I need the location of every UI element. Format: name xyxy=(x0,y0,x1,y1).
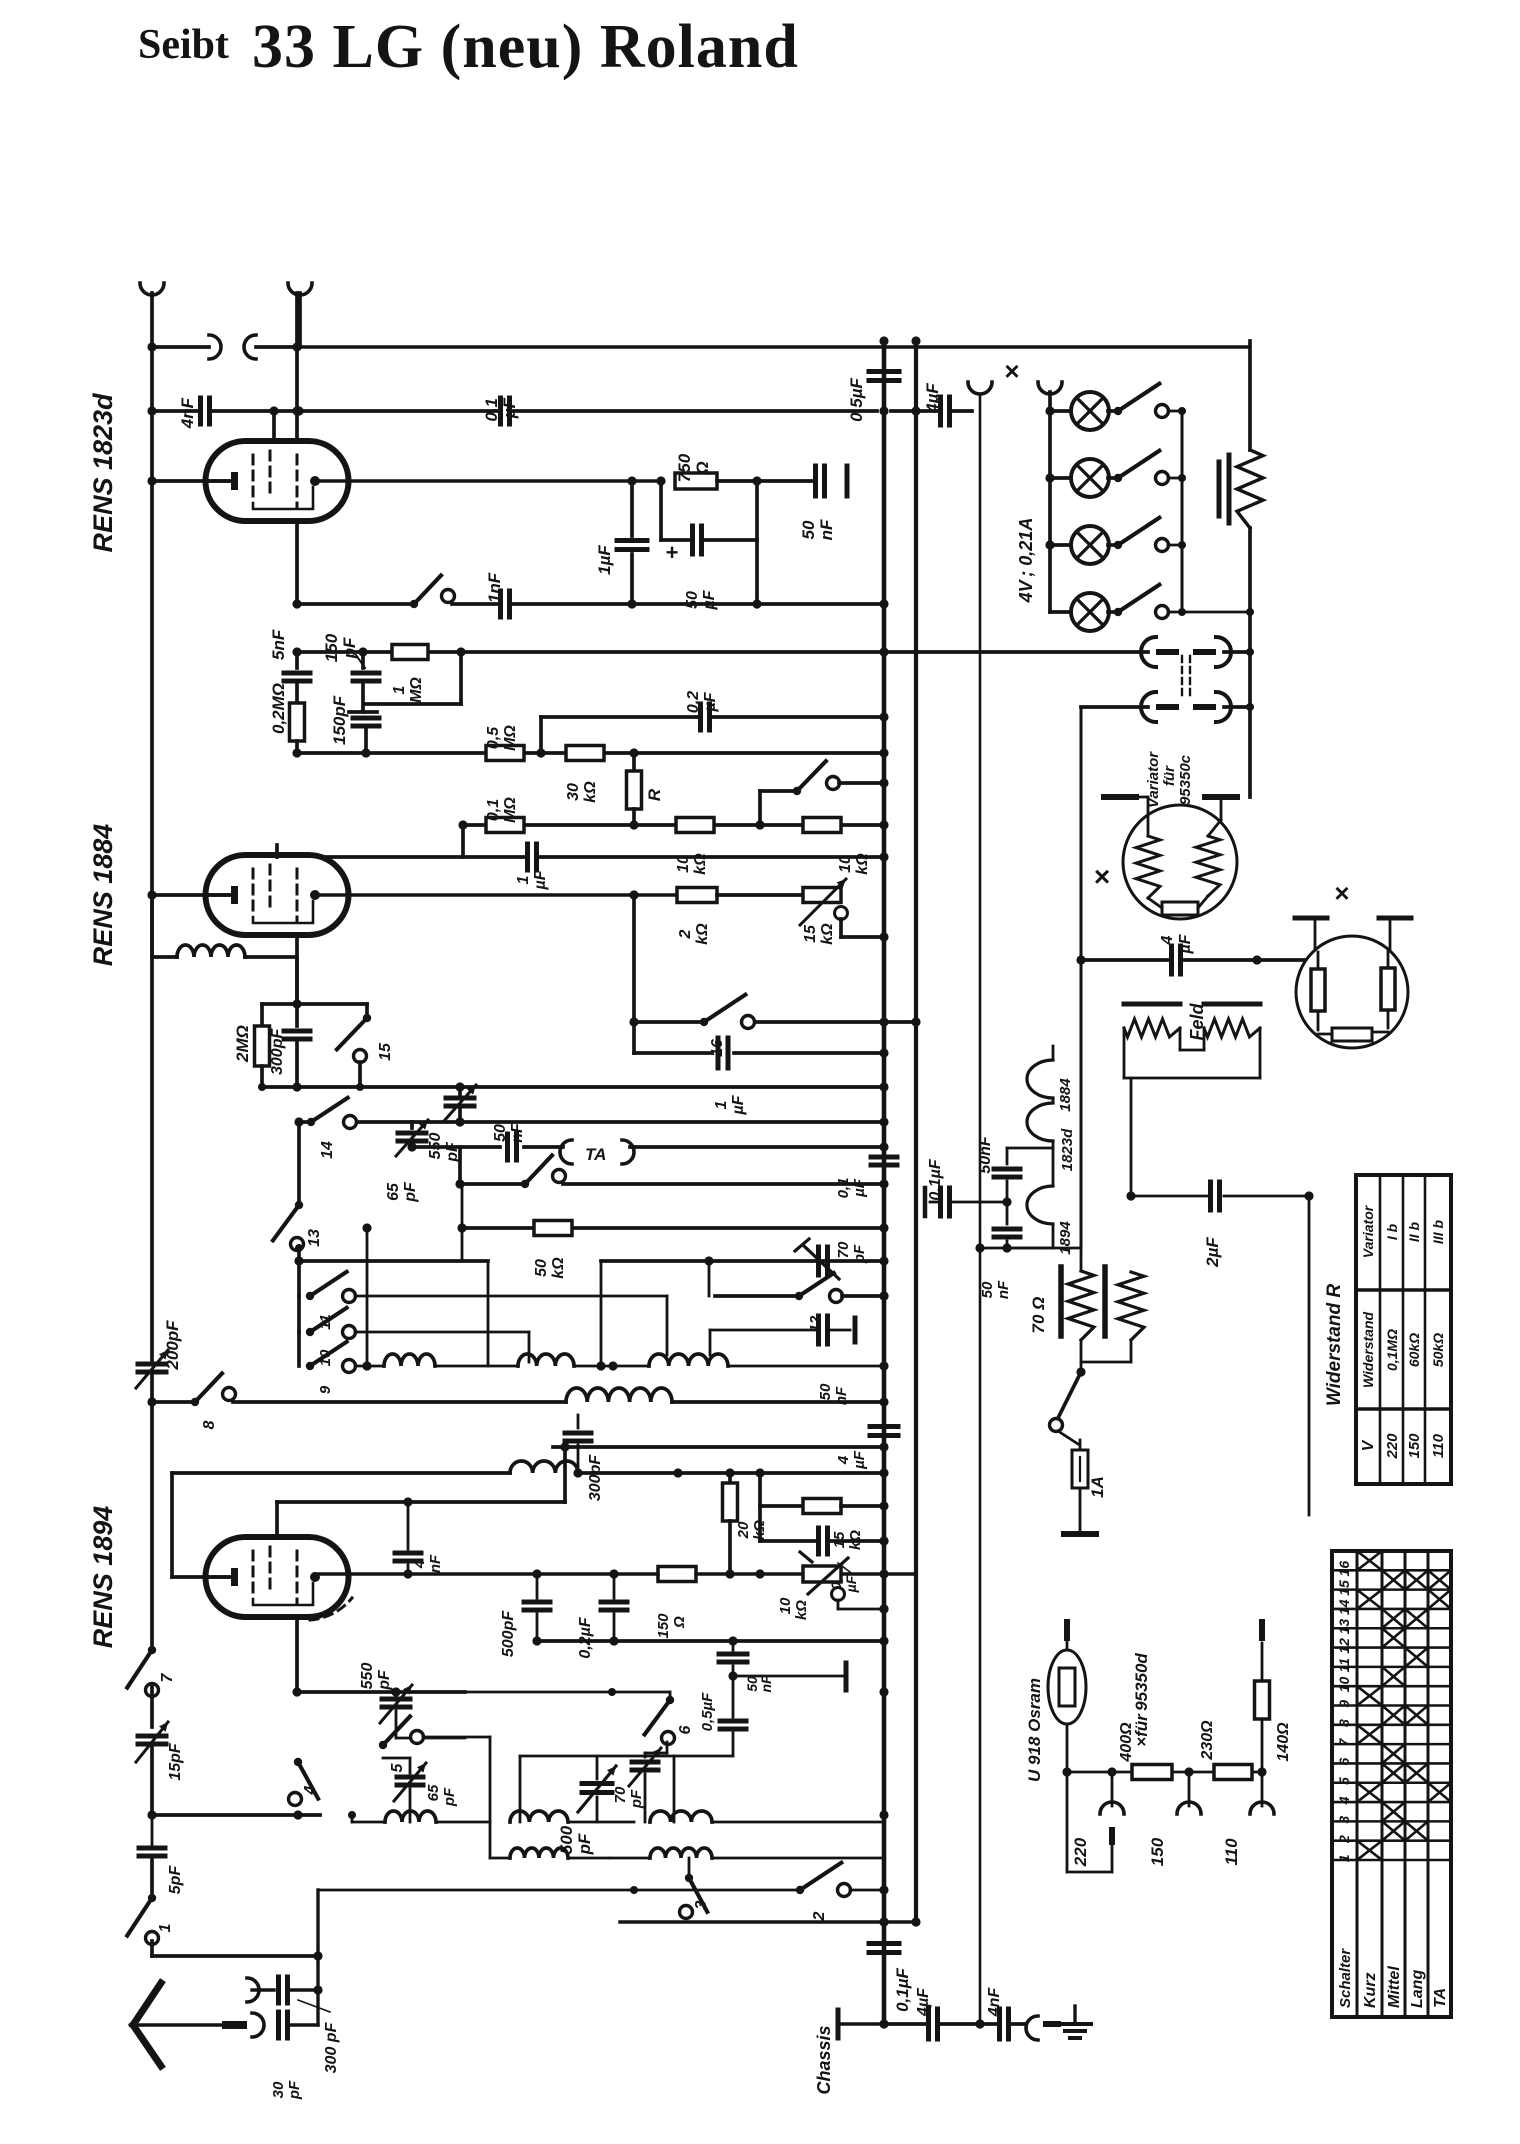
capacitor 4uF chassis xyxy=(915,1987,938,2039)
winding 1823d xyxy=(1027,1098,1076,1171)
capacitor 70pF var xyxy=(790,1239,868,1279)
svg-text:pF: pF xyxy=(851,1244,868,1264)
winding bottom xyxy=(1007,1224,1053,1248)
svg-text:5: 5 xyxy=(1336,1777,1352,1785)
svg-text:0,1: 0,1 xyxy=(482,398,501,422)
wire y411 row xyxy=(152,409,972,413)
label Feld xyxy=(1187,1003,1207,1041)
svg-text:140Ω: 140Ω xyxy=(1275,1722,1292,1762)
svg-text:13: 13 xyxy=(1336,1619,1352,1635)
svg-text:MΩ: MΩ xyxy=(502,725,519,751)
svg-text:pF: pF xyxy=(376,1669,393,1691)
wire y825 xyxy=(458,820,884,829)
winding 1884 xyxy=(1027,1060,1074,1112)
svg-text:0,1: 0,1 xyxy=(835,1178,852,1199)
resistor 750 Ohm xyxy=(675,453,717,489)
wire y1815 xyxy=(147,1810,320,1819)
svg-text:µF: µF xyxy=(1177,933,1194,954)
svg-text:+: + xyxy=(666,540,679,565)
wire y1473 xyxy=(172,1468,884,1477)
resistor 0,5 MOhm xyxy=(485,725,524,761)
tube label RENS 1894 xyxy=(88,1506,118,1649)
capacitor 300pF c2 xyxy=(269,1004,310,1087)
svg-text:kΩ: kΩ xyxy=(694,923,711,945)
wire x297 join xyxy=(295,1244,303,1252)
capacitor 0,1uF xyxy=(482,397,519,424)
capacitor 4uF right xyxy=(835,1402,898,1473)
wire y1261 xyxy=(294,1256,884,1370)
wire y717 xyxy=(541,715,884,719)
variator bar left xyxy=(1104,794,1136,800)
switch 7 xyxy=(127,1402,176,1697)
svg-text:70 Ω: 70 Ω xyxy=(1029,1297,1048,1334)
svg-text:µF: µF xyxy=(701,589,718,610)
node 632-604 xyxy=(627,599,636,608)
capacitor 50nF TA xyxy=(492,1122,526,1160)
coil tuner c xyxy=(649,1354,884,1366)
svg-text:15: 15 xyxy=(802,924,819,943)
tube RENS1894 body xyxy=(206,1537,353,1620)
svg-text:15: 15 xyxy=(377,1042,394,1061)
svg-text:15pF: 15pF xyxy=(167,1742,184,1781)
svg-text:65: 65 xyxy=(385,1182,402,1201)
svg-text:4µF: 4µF xyxy=(923,383,942,414)
svg-text:550: 550 xyxy=(359,1663,376,1690)
svg-text:4: 4 xyxy=(302,1785,319,1795)
bus x916 xyxy=(879,336,920,1926)
svg-text:0,1µF: 0,1µF xyxy=(893,1967,912,2011)
svg-text:150: 150 xyxy=(655,1613,672,1639)
svg-text:110: 110 xyxy=(1430,1433,1447,1458)
svg-text:50nF: 50nF xyxy=(977,1135,994,1174)
svg-text:1: 1 xyxy=(515,875,532,884)
switch 5 xyxy=(379,1716,490,1822)
svg-text:U 918 Osram: U 918 Osram xyxy=(1025,1678,1044,1782)
svg-text:nF: nF xyxy=(833,1386,850,1405)
resistor 2 kOhm xyxy=(677,888,717,945)
svg-text:13: 13 xyxy=(306,1229,323,1247)
svg-text:kΩ: kΩ xyxy=(793,1600,810,1620)
capacitor 150pF b xyxy=(330,695,379,753)
svg-text:µF: µF xyxy=(851,1450,868,1470)
mains pin xyxy=(1064,1531,1096,1537)
wire y1147 xyxy=(407,1142,884,1151)
svg-text:pF: pF xyxy=(628,1789,645,1809)
capacitor 0,5uF bus xyxy=(847,372,899,422)
resistor 15 kOhm var xyxy=(800,879,846,945)
wire y1196 xyxy=(1126,1191,1313,1515)
switch 2 xyxy=(634,1863,884,1922)
svg-text:0,2µF: 0,2µF xyxy=(577,1616,594,1658)
resistor 10k var xyxy=(777,1552,889,1620)
svg-text:95350c: 95350c xyxy=(1177,754,1194,805)
svg-text:150: 150 xyxy=(1148,1837,1167,1866)
electrolytic 50uF xyxy=(661,481,757,611)
speaker terminal 2 xyxy=(1038,382,1062,395)
grid feed wire x297 top xyxy=(292,293,301,455)
svg-text:nF: nF xyxy=(427,1554,444,1573)
capacitor 30pF ant xyxy=(270,2012,318,2100)
thin vertical x980 xyxy=(979,395,982,2024)
label Widerstand R xyxy=(1324,1284,1345,1407)
svg-text:30: 30 xyxy=(270,2081,287,2098)
svg-text:12: 12 xyxy=(1336,1638,1352,1654)
svg-text:µF: µF xyxy=(702,691,719,712)
variator bar right xyxy=(1205,794,1237,800)
svg-text:µF: µF xyxy=(500,397,519,419)
tube2 bottom wire xyxy=(295,935,299,1004)
svg-text:×: × xyxy=(1004,356,1019,386)
variator lead left xyxy=(1120,797,1148,836)
switch 3 xyxy=(680,1858,711,1919)
bus x884 xyxy=(879,336,888,2024)
svg-text:8: 8 xyxy=(201,1420,218,1429)
wire y1248 xyxy=(975,1243,1081,1252)
svg-text:2MΩ: 2MΩ xyxy=(233,1025,252,1063)
wire x152 down xyxy=(147,342,156,481)
capacitor 0,1uF chassis xyxy=(869,1922,912,2024)
feld bar b xyxy=(1204,1002,1260,1007)
tap 150 xyxy=(1148,1772,1201,1866)
variator lead right xyxy=(1208,797,1221,836)
capacitor 4nF t3 xyxy=(395,1497,444,1574)
variator circle xyxy=(1123,805,1237,919)
tube2 cathode wire xyxy=(147,890,231,899)
wire y1122 xyxy=(297,1117,884,1126)
wire y1004 xyxy=(262,1002,367,1006)
resistor joints xyxy=(1076,1340,1131,1377)
svg-text:TA: TA xyxy=(585,1145,606,1164)
svg-text:230Ω: 230Ω xyxy=(1199,1720,1216,1761)
svg-text:9: 9 xyxy=(317,1385,334,1394)
wire x172 xyxy=(170,1473,174,1577)
svg-text:0,2MΩ: 0,2MΩ xyxy=(269,683,288,734)
resistor 400 Ohm xyxy=(1118,1722,1172,1780)
svg-text:×: × xyxy=(1094,861,1110,892)
capacitor 65pF var2 xyxy=(383,1745,458,1822)
capacitor 2uF xyxy=(1203,1182,1222,1268)
coil y1473 xyxy=(510,1461,578,1473)
svg-text:µF: µF xyxy=(843,1575,859,1593)
chassis terminal xyxy=(814,2010,884,2095)
antenna wire xyxy=(133,2023,226,2026)
wire y1402 xyxy=(147,1388,884,1407)
svg-text:×: × xyxy=(1334,878,1349,908)
svg-text:4: 4 xyxy=(411,1559,428,1569)
capacitor 0,1uF heater xyxy=(920,1158,1007,1216)
svg-text:Widerstand R: Widerstand R xyxy=(1324,1284,1345,1407)
svg-text:II b: II b xyxy=(1406,1221,1422,1242)
svg-text:pF: pF xyxy=(441,1787,458,1807)
svg-text:6: 6 xyxy=(1336,1758,1352,1766)
wire y652 xyxy=(292,647,1148,656)
svg-text:kΩ: kΩ xyxy=(550,1257,567,1279)
svg-text:4V ; 0,21A: 4V ; 0,21A xyxy=(1016,518,1036,604)
title text xyxy=(138,22,229,68)
switch 1 xyxy=(127,1894,174,1945)
title model text xyxy=(252,13,799,81)
chassis cup xyxy=(1026,2016,1061,2040)
coil band a xyxy=(348,1811,490,1822)
wire y960 xyxy=(1076,955,1310,964)
speaker terminal 1 xyxy=(968,382,992,395)
node 632-481 xyxy=(627,476,636,485)
svg-text:V: V xyxy=(1360,1439,1377,1451)
svg-text:50kΩ: 50kΩ xyxy=(1430,1333,1446,1367)
capacitor 50nF 12 xyxy=(710,1316,855,1405)
coil antenna xyxy=(152,895,297,1004)
mains row xyxy=(1067,1767,1267,1776)
svg-text:1: 1 xyxy=(1336,1854,1352,1862)
svg-text:5: 5 xyxy=(389,1762,406,1772)
label x fur 95350d xyxy=(1132,1653,1151,1747)
svg-text:pF: pF xyxy=(402,1181,419,1203)
wire y1692 xyxy=(292,1687,465,1696)
switch S-top xyxy=(410,575,455,608)
coil tuner b xyxy=(518,1354,649,1371)
svg-text:50: 50 xyxy=(684,591,701,609)
capacitor 50nF heater b xyxy=(994,1202,1020,1248)
svg-text:11: 11 xyxy=(1336,1658,1352,1673)
coil pair mid xyxy=(490,1811,634,1858)
resistor 70 Ohm b xyxy=(1118,1272,1144,1362)
switch 10 xyxy=(299,1296,529,1366)
x mark right xyxy=(1334,878,1349,908)
wire y604 xyxy=(292,599,884,608)
svg-text:7: 7 xyxy=(159,1672,176,1682)
capacitor 1uF 16 xyxy=(634,1022,884,1116)
wire y347 bus xyxy=(152,342,1247,351)
svg-text:RENS 1884: RENS 1884 xyxy=(88,824,118,967)
capacitor 550pF var2 xyxy=(359,1663,465,1738)
svg-text:70: 70 xyxy=(612,1786,629,1803)
svg-text:0,1MΩ: 0,1MΩ xyxy=(1384,1329,1400,1371)
lamp 1 xyxy=(1045,384,1186,612)
capacitor 4uF bus xyxy=(923,383,950,425)
capacitor 300pF ant xyxy=(252,1977,340,2073)
tube1 cathode wire xyxy=(147,476,231,485)
feld resistor a xyxy=(1124,1019,1180,1037)
svg-text:Mittel: Mittel xyxy=(1386,1966,1403,2008)
capacitor 4nF chassis xyxy=(984,1987,1026,2039)
svg-text:2µF: 2µF xyxy=(1203,1237,1222,1268)
wire y1359 right xyxy=(487,1365,489,1367)
svg-text:5pF: 5pF xyxy=(167,1865,184,1895)
capacitor 0,1uF bus xyxy=(835,1157,897,1198)
node 661-481 xyxy=(656,476,665,485)
lamp U918 stem xyxy=(1062,1724,1071,1777)
svg-text:Lang: Lang xyxy=(1409,1970,1426,2008)
label 50nF lower xyxy=(979,1280,1012,1299)
svg-text:4: 4 xyxy=(1336,1796,1352,1805)
svg-text:4nF: 4nF xyxy=(178,397,197,429)
svg-text:150pF: 150pF xyxy=(330,695,349,745)
svg-text:4: 4 xyxy=(1159,935,1176,945)
capacitor 15pF var xyxy=(136,1687,184,1815)
wire x461 drop xyxy=(366,652,461,704)
wire x634 down xyxy=(629,895,638,1027)
antenna pin xyxy=(226,2021,243,2029)
svg-text:500: 500 xyxy=(557,1825,576,1854)
right circle bottom box xyxy=(1318,1028,1388,1041)
tube3 grid wire xyxy=(277,1442,884,1537)
tube2 grid wire xyxy=(275,845,279,857)
svg-text:0,2: 0,2 xyxy=(685,691,702,713)
svg-text:MΩ: MΩ xyxy=(502,797,519,823)
tap 110 xyxy=(1222,1772,1274,1866)
svg-text:nF: nF xyxy=(509,1122,526,1143)
switch 8 xyxy=(191,1373,236,1429)
capacitor 5pF xyxy=(139,1815,184,1898)
tap 220 xyxy=(1067,1772,1124,1872)
switch 12 xyxy=(715,1273,889,1332)
node 757-604 xyxy=(752,599,761,608)
svg-text:400Ω: 400Ω xyxy=(1118,1722,1135,1763)
resistor 70 Ohm a xyxy=(1029,1248,1094,1340)
svg-text:20: 20 xyxy=(735,1521,752,1539)
svg-text:16: 16 xyxy=(1336,1561,1352,1577)
svg-text:nF: nF xyxy=(995,1280,1012,1299)
wire y1890 left xyxy=(318,1886,638,1894)
switch 13 xyxy=(273,1117,323,1250)
resistor 230 Ohm xyxy=(1199,1720,1252,1780)
coil tuner a xyxy=(362,1354,518,1371)
capacitor 70pF var2 xyxy=(612,1742,667,1822)
resistor 140 Ohm xyxy=(1255,1643,1293,1772)
transformer secondary xyxy=(1081,692,1250,1248)
right loop wire xyxy=(1248,341,1252,450)
svg-text:9: 9 xyxy=(1336,1700,1352,1708)
table Schalter xyxy=(1332,1551,1451,2017)
svg-text:7: 7 xyxy=(1336,1737,1352,1746)
mains pin top1 xyxy=(1064,1619,1070,1641)
tube3 bottom wire xyxy=(295,1617,299,1692)
svg-text:0,5µF: 0,5µF xyxy=(847,377,866,421)
right circle resistor b xyxy=(1381,950,1395,1028)
feld bar a xyxy=(1124,1002,1180,1007)
svg-text:1894: 1894 xyxy=(1057,1221,1074,1255)
capacitor 1uF grid xyxy=(515,844,549,891)
svg-text:Widerstand: Widerstand xyxy=(1360,1312,1376,1389)
coil pair right xyxy=(610,1811,884,1858)
svg-text:nF: nF xyxy=(817,519,836,540)
dropper bars xyxy=(1219,455,1229,523)
label 4V 0,21A xyxy=(1016,518,1036,604)
svg-text:300pF: 300pF xyxy=(269,1028,286,1075)
svg-text:1nF: 1nF xyxy=(485,572,504,603)
capacitor 300pF drop xyxy=(565,1415,604,1501)
resistor 0,2MOhm xyxy=(269,683,305,753)
svg-text:2: 2 xyxy=(811,1911,828,1921)
svg-text:60kΩ: 60kΩ xyxy=(1406,1333,1422,1367)
node y411 dots xyxy=(269,406,303,415)
wire 2k-15k xyxy=(717,893,803,897)
antenna cup 300pF xyxy=(247,1978,259,2002)
variator resistor b xyxy=(1196,836,1220,896)
svg-text:I b: I b xyxy=(1384,1223,1400,1240)
capacitor 500pF varbig xyxy=(520,1756,674,1855)
svg-text:300 pF: 300 pF xyxy=(323,2021,340,2073)
svg-text:RENS 1894: RENS 1894 xyxy=(88,1506,118,1649)
svg-text:µF: µF xyxy=(730,1094,747,1115)
svg-text:8: 8 xyxy=(1336,1719,1352,1727)
wire y753 xyxy=(292,748,884,757)
svg-text:10: 10 xyxy=(777,1597,794,1614)
right circle xyxy=(1296,936,1408,1048)
wire x541 up xyxy=(539,717,543,753)
coupler cups xyxy=(209,335,256,359)
tube label RENS 1884 xyxy=(88,824,118,967)
tube3 anode wire xyxy=(315,1569,916,1578)
wire 750 to 50nF xyxy=(717,476,813,485)
lamp U918 xyxy=(1025,1641,1086,1782)
earth ground xyxy=(1059,2006,1091,2038)
winding 1894 xyxy=(1027,1186,1074,1255)
TA jacks xyxy=(560,1140,634,1164)
wire y1641 xyxy=(532,1636,884,1645)
wire y1087 xyxy=(258,1082,884,1091)
resistor 0,1 MOhm xyxy=(485,797,524,833)
capacitor 200pF var xyxy=(136,957,182,1402)
antenna riser x318 xyxy=(313,1890,322,2025)
tube RENS1884 body xyxy=(206,855,349,935)
wire x152 mid xyxy=(150,481,154,957)
variator bottom box xyxy=(1148,896,1208,915)
lamp feed xyxy=(1048,392,1052,612)
antenna terminal A1 xyxy=(140,283,164,347)
transformer primary xyxy=(1141,637,1250,667)
feld wiring xyxy=(1124,1028,1260,1196)
svg-text:14: 14 xyxy=(1336,1599,1352,1615)
x mark variator xyxy=(1094,861,1110,892)
label 150pF xyxy=(322,633,365,668)
node 297-1004 xyxy=(292,999,301,1008)
resistor 2 MOhm xyxy=(233,1004,270,1087)
tube RENS1823d body xyxy=(206,441,349,521)
feld resistor b xyxy=(1204,1019,1260,1037)
switch 9 xyxy=(299,1332,384,1394)
fuse 1A xyxy=(1072,1440,1107,1530)
svg-text:750: 750 xyxy=(675,453,694,482)
capacitor 5nF xyxy=(269,629,310,681)
winding mid xyxy=(1052,1141,1055,1186)
svg-text:220: 220 xyxy=(1071,1837,1090,1867)
svg-text:15: 15 xyxy=(1336,1580,1352,1596)
wire y1956 xyxy=(152,1941,318,1956)
svg-text:1884: 1884 xyxy=(1057,1078,1074,1112)
mains switch xyxy=(1050,1372,1082,1444)
switch 6 xyxy=(465,1688,694,1745)
switch 11 xyxy=(299,1248,667,1355)
wire chassis row xyxy=(884,2019,985,2028)
variator resistor a xyxy=(1136,836,1160,898)
svg-text:pF: pF xyxy=(575,1833,594,1855)
svg-text:0,1: 0,1 xyxy=(485,799,502,821)
svg-text:1A: 1A xyxy=(1088,1476,1107,1498)
capacitor 0,2uF xyxy=(685,691,719,730)
capacitor 550pF var xyxy=(427,1082,476,1162)
svg-text:4nF: 4nF xyxy=(986,1987,1003,2018)
svg-text:Ω: Ω xyxy=(671,1616,688,1629)
capacitor 0,1uF bottom xyxy=(760,1506,889,1593)
svg-text:MΩ: MΩ xyxy=(408,677,425,703)
right circle resistor a xyxy=(1311,952,1325,1030)
svg-text:3: 3 xyxy=(1336,1816,1352,1824)
transformer core dashes xyxy=(1182,656,1190,700)
svg-text:200pF: 200pF xyxy=(163,1320,182,1371)
svg-text:4µF: 4µF xyxy=(915,1987,932,2017)
svg-text:0,5: 0,5 xyxy=(485,726,502,749)
